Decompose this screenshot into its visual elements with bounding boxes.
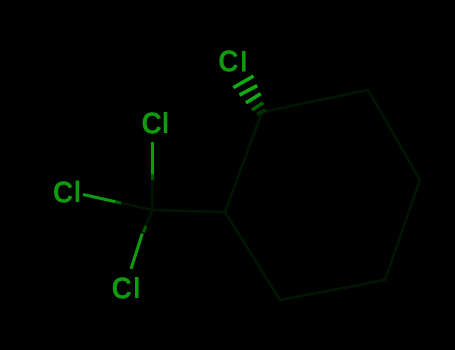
svg-text:C: C: [142, 106, 162, 140]
svg-text:C: C: [53, 175, 73, 209]
svg-text:C: C: [218, 44, 238, 78]
svg-text:C: C: [112, 271, 132, 305]
